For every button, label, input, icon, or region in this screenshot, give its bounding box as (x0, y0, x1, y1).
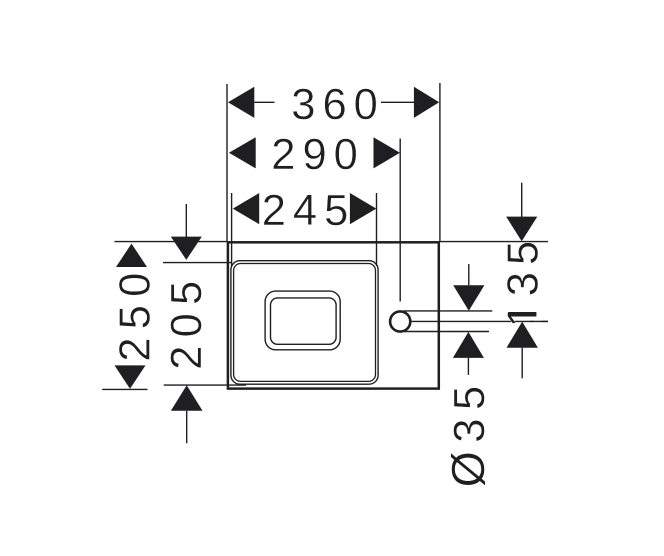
svg-text:Ø35: Ø35 (442, 377, 494, 487)
svg-text:205: 205 (163, 273, 211, 370)
svg-text:360: 360 (291, 81, 385, 129)
svg-text:250: 250 (111, 265, 159, 362)
svg-text:290: 290 (271, 131, 365, 179)
svg-text:245: 245 (262, 187, 356, 235)
